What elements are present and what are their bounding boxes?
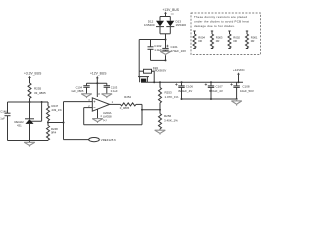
wire inverting input bbox=[84, 107, 92, 109]
junction dot REF rail bbox=[41, 101, 43, 103]
label C108 10uF_50V bbox=[240, 84, 254, 93]
svg-text:33_0805: 33_0805 bbox=[34, 91, 46, 95]
svg-text:0R: 0R bbox=[233, 39, 237, 43]
svg-text:under the diodes to avoid PCB: under the diodes to avoid PCB heat bbox=[194, 20, 249, 24]
wire V- stem bbox=[97, 109, 99, 118]
svg-text:1.07K_1%: 1.07K_1% bbox=[165, 95, 179, 99]
resistor R255 bbox=[28, 78, 31, 103]
wire +12V_BUS stem bbox=[96, 78, 98, 83]
diode D12 bbox=[156, 17, 164, 34]
junction dot C106 ground bbox=[181, 98, 183, 100]
wire power stem to diode rail bbox=[165, 13, 167, 16]
wire +12VDC stem bbox=[238, 75, 240, 83]
resistor R247 bbox=[47, 102, 50, 123]
wire node A left drop bbox=[138, 40, 140, 72]
power symbol +12V_BUS arrow bbox=[96, 76, 99, 78]
wire left block top rail bbox=[8, 101, 49, 103]
svg-text:VREF125 6: VREF125 6 bbox=[101, 138, 116, 142]
label R248 0R4 bbox=[51, 127, 58, 135]
capacitor C103 bbox=[104, 83, 110, 94]
ground below R256 bbox=[155, 130, 166, 134]
label C106 820uF_4V bbox=[178, 84, 193, 93]
wire C102 to C101 bottom link bbox=[151, 59, 166, 61]
svg-text:249_1%: 249_1% bbox=[52, 108, 63, 112]
svg-text:C104: C104 bbox=[76, 86, 83, 90]
svg-text:3.40K_1%: 3.40K_1% bbox=[164, 118, 178, 122]
label R001 0R bbox=[251, 35, 258, 43]
label C102 1.0uF bbox=[154, 44, 162, 52]
wire divider junction to vref vertical bbox=[48, 122, 64, 124]
resistor R256 bbox=[159, 110, 162, 130]
junction dot bottom link bbox=[165, 59, 167, 61]
wire ground bus under caps bbox=[182, 98, 237, 100]
svg-text:damage due to hot diodes.: damage due to hot diodes. bbox=[194, 24, 235, 28]
svg-text:R254: R254 bbox=[124, 95, 131, 99]
wire divider tap bbox=[142, 109, 160, 111]
resistor R253 bbox=[159, 81, 162, 110]
ground arrow right cluster bbox=[231, 99, 241, 106]
ground left block bbox=[24, 141, 35, 147]
wire opamp output bbox=[110, 103, 121, 105]
label C101 470uF_16V bbox=[171, 45, 187, 53]
svg-text:C108: C108 bbox=[242, 84, 250, 88]
svg-text:R255: R255 bbox=[34, 87, 42, 91]
label D13 1N5400 bbox=[176, 20, 187, 28]
svg-text:These dummy resistors are plac: These dummy resistors are placed bbox=[194, 15, 247, 19]
junction dot DZ2 to bus bbox=[153, 81, 155, 83]
svg-text:+12VDC: +12VDC bbox=[233, 68, 246, 72]
wire R254 to feedback vertical bbox=[136, 103, 142, 105]
svg-text:C107: C107 bbox=[216, 84, 224, 88]
svg-text:+12V_BUS: +12V_BUS bbox=[90, 72, 107, 76]
node divider junction dot bbox=[159, 109, 161, 111]
resistor R003 bbox=[211, 31, 214, 49]
component shunt FB1 bbox=[138, 77, 149, 83]
svg-text:8: 8 bbox=[98, 93, 100, 96]
svg-text:1uF: 1uF bbox=[0, 117, 5, 121]
wire feedback left vertical bbox=[83, 108, 85, 125]
svg-text:(+): (+) bbox=[103, 118, 107, 122]
junction dot vref vertical bbox=[63, 122, 65, 124]
svg-text:C106: C106 bbox=[186, 84, 194, 88]
diode D13 bbox=[166, 17, 174, 34]
wire to vref oval bbox=[64, 139, 89, 141]
capacitor C108 bbox=[230, 82, 240, 99]
junction dot C107 ground bbox=[210, 98, 212, 100]
svg-text:0R: 0R bbox=[216, 39, 220, 43]
wire diode top rail bbox=[160, 16, 170, 18]
wire DZ2 right pin to bus bbox=[152, 71, 155, 82]
svg-text:R256: R256 bbox=[164, 114, 172, 118]
power symbol +3.3V_BUS arrow bbox=[28, 76, 31, 78]
junction dot R247 R248 bbox=[47, 122, 49, 124]
label D12 1N5400 bbox=[144, 20, 155, 28]
wire stem diodes to node A bbox=[165, 34, 167, 40]
label C103 0.1uF bbox=[111, 86, 118, 94]
capacitor C104 bbox=[83, 83, 89, 94]
junction dot cap rail bbox=[96, 82, 98, 84]
label R002 0R bbox=[233, 35, 240, 43]
junction dot feedback tap bbox=[141, 109, 143, 111]
capacitor C107 bbox=[205, 81, 215, 99]
label R255 33_0805 bbox=[34, 87, 46, 95]
wire REG02 ref to rail bbox=[31, 102, 42, 121]
ground below C103 bbox=[102, 94, 113, 98]
capacitor C106 bbox=[175, 81, 185, 99]
svg-text:820uF_4V: 820uF_4V bbox=[209, 89, 223, 93]
wire +12VDC bus bbox=[141, 81, 243, 83]
svg-text:0R: 0R bbox=[198, 39, 202, 43]
tick mark right of diode rail bbox=[171, 13, 174, 15]
note box dashed bbox=[191, 13, 261, 55]
ground below C104 bbox=[81, 94, 92, 98]
svg-text:0R: 0R bbox=[251, 39, 255, 43]
wire diode bottom rail bbox=[160, 33, 170, 35]
wire noninverting input bbox=[64, 101, 93, 103]
svg-text:1N5400: 1N5400 bbox=[144, 23, 155, 27]
wire to DZ2 left pin bbox=[139, 70, 143, 72]
junction dot R255 rail bbox=[29, 101, 31, 103]
wire V+ stem to opamp bbox=[96, 83, 98, 97]
node A junction dot bbox=[165, 39, 167, 41]
regulator REG02 431 bbox=[25, 102, 34, 141]
svg-text:431: 431 bbox=[17, 124, 22, 128]
svg-text:0.1uF: 0.1uF bbox=[111, 89, 118, 93]
svg-text:0R4: 0R4 bbox=[51, 131, 57, 135]
offpage connector VREF125 oval bbox=[89, 138, 100, 142]
resistor R254 bbox=[121, 103, 136, 106]
label R004 0R bbox=[198, 35, 205, 43]
label REG02 431 bbox=[15, 120, 25, 128]
capacitor C101 bbox=[162, 40, 168, 51]
wire drop to shunt FB1 bbox=[138, 71, 140, 76]
svg-text:0_0805: 0_0805 bbox=[120, 106, 130, 110]
wire feedback bottom bbox=[84, 124, 142, 126]
component DZ2 box bbox=[144, 69, 152, 73]
resistor R248 bbox=[47, 123, 50, 141]
wire vref vertical bbox=[63, 102, 65, 140]
capacitor C102 bbox=[148, 40, 154, 61]
svg-text:C103: C103 bbox=[111, 86, 118, 90]
junction dot C108 ground bbox=[236, 98, 238, 100]
svg-text:GPD090SV: GPD090SV bbox=[153, 69, 167, 73]
svg-text:C146: C146 bbox=[0, 109, 7, 113]
label R256 3.40K_1% bbox=[164, 114, 178, 122]
svg-text:R253: R253 bbox=[165, 90, 173, 94]
wire node A horizontal bbox=[139, 39, 165, 41]
label R253 1.07K_1% bbox=[165, 90, 179, 98]
svg-text:820uF_4V: 820uF_4V bbox=[178, 89, 192, 93]
resistor R004 bbox=[193, 31, 196, 49]
svg-text:1N5400: 1N5400 bbox=[176, 23, 187, 27]
op-amp U200A bbox=[92, 98, 109, 111]
label DZ2 GPD090SV bbox=[153, 66, 167, 73]
wire opamp cap rail bbox=[87, 82, 107, 84]
ground below opamp bbox=[92, 119, 103, 123]
capacitor C146 bbox=[5, 102, 11, 141]
ground below C101 bbox=[160, 50, 171, 55]
label C146 1uF bbox=[0, 109, 7, 120]
svg-text:+3.3V_BUS: +3.3V_BUS bbox=[24, 72, 42, 76]
wire feedback right vertical bbox=[141, 104, 143, 124]
svg-text:1: 1 bbox=[112, 101, 114, 104]
svg-text:10uF_50V: 10uF_50V bbox=[240, 89, 254, 93]
svg-text:1uF_0805: 1uF_0805 bbox=[71, 89, 84, 93]
label R247 249_1% bbox=[52, 104, 63, 112]
label R254 0_0805 bbox=[120, 95, 132, 110]
resistor R002 bbox=[228, 31, 231, 49]
power symbol +13V_BUS arrow bbox=[164, 12, 167, 14]
label C104 1uF_0805 bbox=[71, 86, 84, 94]
wire C101 ground to bottom link bbox=[165, 55, 167, 60]
resistor R001 bbox=[246, 31, 249, 49]
svg-text:470uF_16V: 470uF_16V bbox=[171, 49, 187, 53]
wire left block bottom rail bbox=[8, 140, 49, 142]
power symbol +12VDC arrow bbox=[237, 72, 240, 74]
svg-text:+13V_BUS: +13V_BUS bbox=[163, 8, 180, 12]
label R003 0R bbox=[216, 35, 223, 43]
note text bbox=[194, 15, 249, 28]
label C107 820uF_4V bbox=[209, 84, 223, 93]
label U200A LM358 (+) bbox=[103, 111, 112, 122]
